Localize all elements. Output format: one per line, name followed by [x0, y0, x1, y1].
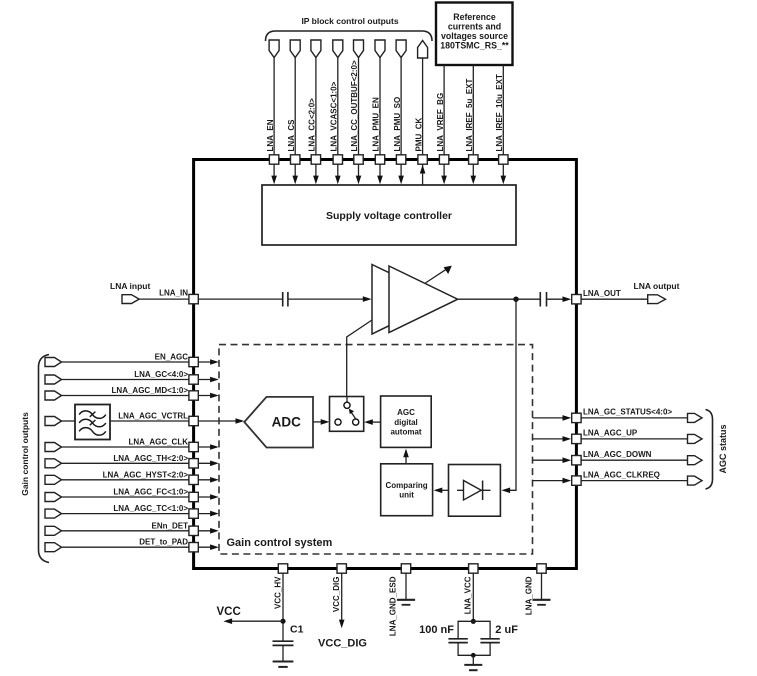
capacitor C1	[273, 624, 304, 662]
block: Comparing unit	[381, 464, 433, 516]
pin LNA_GND	[525, 564, 547, 615]
svg-text:unit: unit	[399, 490, 414, 499]
svg-text:LNA_IN: LNA_IN	[159, 289, 188, 298]
block: ADC	[244, 397, 313, 448]
svg-text:LNA_OUT: LNA_OUT	[583, 289, 621, 298]
svg-text:LNA_PMU_SO: LNA_PMU_SO	[393, 97, 402, 152]
svg-text:automat: automat	[390, 428, 421, 437]
wire: capacitor to amplifier input	[288, 296, 372, 302]
svg-text:LNA_AGC_MD<1:0>: LNA_AGC_MD<1:0>	[112, 386, 189, 395]
ground: decoupling	[464, 665, 482, 670]
svg-text:LNA_VCASC<1:0>: LNA_VCASC<1:0>	[330, 81, 339, 151]
svg-text:180TSMC_RS_**: 180TSMC_RS_**	[440, 40, 509, 50]
svg-text:LNA_AGC_HYST<2:0>: LNA_AGC_HYST<2:0>	[103, 470, 189, 479]
svg-text:LNA_CC_OUTBUF<2:0>: LNA_CC_OUTBUF<2:0>	[350, 60, 359, 151]
svg-text:Gain control system: Gain control system	[227, 537, 333, 549]
wire: diode block to Comparing unit	[434, 488, 449, 494]
capacitor: output AC coupling	[540, 292, 546, 307]
pin LNA_OUT	[572, 289, 621, 304]
svg-text:LNA_EN: LNA_EN	[266, 119, 275, 151]
pin ENn_DET	[45, 521, 219, 535]
block: Supply voltage controller	[262, 185, 516, 245]
capacitor 100 nF	[419, 624, 468, 643]
svg-text:LNA_CC<2:0>: LNA_CC<2:0>	[308, 98, 317, 152]
switch S1	[330, 397, 364, 432]
svg-text:VCC: VCC	[217, 606, 241, 618]
pin LNA_GC_STATUS<4:0>	[533, 408, 703, 423]
pin LNA_CC<2:0>	[308, 40, 321, 184]
svg-text:EN_AGC: EN_AGC	[155, 353, 189, 362]
svg-text:100 nF: 100 nF	[419, 624, 454, 636]
svg-text:PMU_CK: PMU_CK	[414, 117, 423, 151]
svg-text:LNA_GC<4:0>: LNA_GC<4:0>	[134, 370, 188, 379]
pin VCC_HV	[273, 564, 287, 641]
pin LNA_IREF_10u_EXT	[495, 65, 508, 184]
svg-text:Reference: Reference	[453, 12, 496, 22]
pin LNA_AGC_MD<1:0>	[45, 386, 219, 400]
pin LNA_PMU_EN	[372, 40, 385, 184]
pin LNA_PMU_SO	[393, 40, 406, 184]
pin LNA_VCASC<1:0>	[330, 40, 343, 184]
pin VCC_DIG	[318, 564, 367, 650]
pin: LNA input (external)	[110, 281, 189, 304]
svg-text:LNA_AGC_TC<1:0>: LNA_AGC_TC<1:0>	[113, 504, 188, 513]
wire: decoupling network bottom rail	[458, 643, 490, 656]
svg-text:LNA_AGC_UP: LNA_AGC_UP	[583, 429, 638, 438]
wire: amplifier tap to switch	[347, 320, 372, 397]
svg-text:LNA_VCC: LNA_VCC	[464, 576, 473, 614]
svg-text:IP block control outputs: IP block control outputs	[301, 16, 398, 26]
svg-text:currents and: currents and	[448, 21, 501, 31]
svg-text:Comparing: Comparing	[385, 481, 427, 490]
brace: Gain control outputs group	[39, 355, 50, 563]
svg-text:LNA_AGC_FC<1:0>: LNA_AGC_FC<1:0>	[113, 488, 188, 497]
block: Reference currents and voltages source 180TSMC_RS_**	[436, 3, 513, 66]
wire: amplifier output	[458, 298, 540, 300]
pin LNA_AGC_DOWN	[533, 450, 703, 465]
pin LNA_EN	[266, 40, 279, 184]
pin LNA_CS	[287, 40, 300, 184]
svg-text:DET_to_PAD: DET_to_PAD	[139, 538, 188, 547]
pin LNA_GND_ESD	[389, 564, 411, 636]
wire: Comparing unit to AGC digital automat	[403, 449, 409, 464]
wire: decoupling network top rail	[458, 621, 490, 638]
node: LNA_VCC junction	[471, 619, 476, 624]
svg-text:LNA output: LNA output	[634, 281, 680, 291]
pin DET_to_PAD	[45, 538, 219, 552]
svg-text:VCC_DIG: VCC_DIG	[318, 638, 367, 650]
svg-text:AGC: AGC	[397, 408, 415, 417]
wire: AGC digital automat to switch	[364, 419, 381, 425]
ground: LNA_GND_ESD	[397, 600, 415, 605]
svg-text:LNA_CS: LNA_CS	[287, 119, 296, 152]
svg-text:LNA_AGC_CLKREQ: LNA_AGC_CLKREQ	[583, 470, 660, 479]
pin PMU_CK	[414, 41, 427, 186]
pin: LNA output (external)	[581, 281, 680, 304]
wire: LNA_IN to input capacitor	[198, 298, 282, 300]
svg-text:voltages source: voltages source	[441, 31, 508, 41]
wire: VCC arrow	[217, 606, 284, 624]
svg-text:LNA_VREF_BG: LNA_VREF_BG	[436, 93, 445, 152]
pin LNA_GC<4:0>	[45, 370, 219, 384]
pin EN_AGC	[45, 353, 219, 367]
block: AGC digital automat	[381, 396, 432, 447]
svg-text:2 uF: 2 uF	[495, 624, 518, 636]
svg-text:LNA_AGC_VCTRL: LNA_AGC_VCTRL	[118, 412, 188, 421]
svg-text:digital: digital	[394, 418, 418, 427]
svg-text:Gain control outputs: Gain control outputs	[20, 412, 30, 496]
svg-text:LNA input: LNA input	[110, 281, 150, 291]
pin LNA_AGC_HYST<2:0>	[45, 470, 219, 484]
svg-text:LNA_AGC_TH<2:0>: LNA_AGC_TH<2:0>	[113, 454, 188, 463]
svg-text:LNA_AGC_CLK: LNA_AGC_CLK	[128, 438, 188, 447]
brace: AGC status group	[706, 410, 713, 490]
svg-text:LNA_PMU_EN: LNA_PMU_EN	[372, 97, 381, 151]
wire: output junction to detector	[501, 299, 516, 493]
pin LNA_VCC	[464, 564, 478, 622]
svg-text:ENn_DET: ENn_DET	[152, 521, 189, 530]
brace: IP block control outputs group	[266, 31, 433, 41]
pin LNA_AGC_TC<1:0>	[45, 504, 219, 518]
svg-text:LNA_IREF_5u_EXT: LNA_IREF_5u_EXT	[465, 78, 474, 151]
node: output junction	[513, 297, 518, 302]
svg-text:LNA_IREF_10u_EXT: LNA_IREF_10u_EXT	[495, 74, 504, 151]
pin LNA_AGC_CLKREQ	[533, 470, 703, 485]
pin LNA_VREF_BG	[436, 65, 449, 184]
pin LNA_AGC_CLK	[45, 438, 219, 452]
svg-text:VCC_HV: VCC_HV	[273, 576, 282, 609]
filter (low-pass) on LNA_AGC_VCTRL	[75, 405, 110, 440]
svg-text:AGC status: AGC status	[718, 424, 728, 473]
wire: ADC to switch	[313, 419, 329, 425]
wire: capacitor to LNA_OUT pin	[547, 296, 572, 302]
pin LNA_AGC_TH<2:0>	[45, 454, 219, 468]
pin LNA_AGC_FC<1:0>	[45, 488, 219, 502]
ground: LNA_GND	[533, 600, 551, 605]
svg-text:LNA_GND_ESD: LNA_GND_ESD	[389, 576, 398, 636]
IC outline: LNA block	[194, 160, 577, 569]
amplifier: variable-gain LNA core (two stages)	[372, 265, 458, 335]
node: VCC junction	[280, 619, 285, 624]
pin LNA_AGC_VCTRL	[45, 412, 244, 426]
wire: to ground	[472, 655, 474, 664]
capacitor 2 uF	[480, 624, 518, 643]
node: decoupling bottom junction	[471, 653, 476, 658]
svg-text:Supply voltage controller: Supply voltage controller	[326, 210, 452, 222]
svg-text:LNA_GND: LNA_GND	[525, 576, 534, 615]
svg-text:ADC: ADC	[272, 415, 301, 430]
svg-text:VCC_DIG: VCC_DIG	[332, 577, 341, 613]
svg-text:LNA_AGC_DOWN: LNA_AGC_DOWN	[583, 450, 652, 459]
svg-text:C1: C1	[290, 624, 304, 636]
pin LNA_AGC_UP	[533, 429, 703, 444]
pin LNA_CC_OUTBUF<2:0>	[350, 40, 363, 184]
ground: C1	[273, 662, 294, 667]
dashed box: Gain control system	[219, 345, 533, 554]
svg-text:LNA_GC_STATUS<4:0>: LNA_GC_STATUS<4:0>	[583, 408, 672, 417]
pin LNA_IN	[159, 289, 198, 304]
capacitor: input AC coupling	[283, 292, 288, 307]
detector: diode block	[449, 465, 501, 517]
pin LNA_IREF_5u_EXT	[465, 65, 478, 184]
